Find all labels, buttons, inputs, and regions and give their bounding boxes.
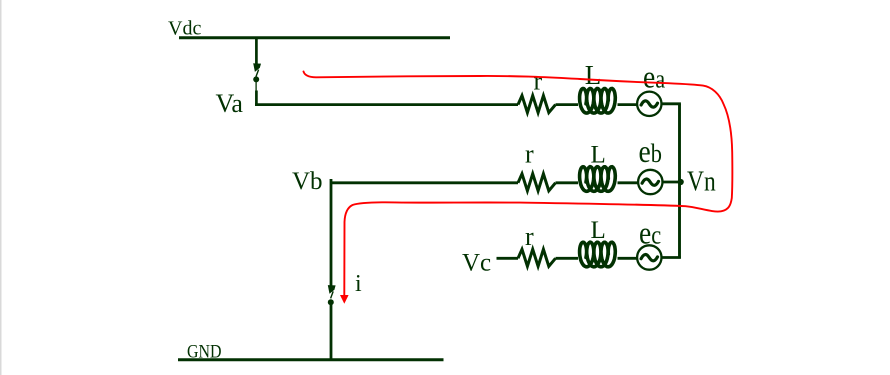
svg-text:L: L — [591, 141, 606, 168]
svg-text:Vc: Vc — [462, 250, 491, 277]
svg-text:ea: ea — [643, 59, 665, 94]
switch S1 arrowhead — [253, 63, 261, 72]
wire resistor-to-inductor (phase B) — [556, 181, 579, 184]
AC source ea (phase A) — [637, 92, 661, 116]
switch S2 contact dot — [328, 299, 334, 305]
resistor r (phase B) — [518, 174, 556, 191]
arrowhead of current i — [340, 295, 349, 304]
svg-text:L: L — [585, 60, 602, 90]
wire source ec to right bus — [662, 256, 681, 259]
wire right bus (ea-eb-ec common) — [678, 104, 681, 258]
wire inductor-to-source (phase C) — [618, 257, 638, 260]
inductor L (phase A) — [580, 89, 616, 114]
svg-text:Vn: Vn — [687, 166, 716, 197]
wire source ea to right bus — [662, 102, 681, 105]
svg-text:r: r — [534, 67, 543, 96]
wire Vdc bus to switch S1 — [255, 38, 258, 64]
wire resistor-to-inductor (phase C) — [556, 257, 579, 260]
wire source eb to node Vn — [663, 181, 681, 184]
bus wire GND — [178, 358, 444, 361]
junction dot node Vn — [678, 179, 684, 185]
wire resistor-to-inductor (phase A) — [556, 103, 579, 106]
switch S1 lower stub — [255, 82, 257, 91]
wire node Vc to resistor (phase C) — [497, 257, 519, 260]
svg-text:Vb: Vb — [292, 168, 323, 195]
svg-text:Va: Va — [216, 89, 244, 118]
inductor L (phase B) — [580, 167, 616, 192]
AC source ec (phase C) — [637, 245, 661, 269]
svg-text:L: L — [591, 217, 606, 244]
bus wire Vdc — [179, 36, 450, 39]
svg-text:Vdc: Vdc — [168, 17, 201, 39]
current path i (red freehand loop) — [304, 72, 733, 296]
resistor r (phase A) — [518, 96, 556, 113]
wire node Vb down to switch S2 — [330, 179, 333, 286]
AC source eb (phase B) — [638, 170, 662, 194]
inductor L (phase C) — [580, 242, 616, 267]
wire switch S2 to GND bus — [330, 305, 333, 362]
svg-text:r: r — [525, 139, 534, 168]
svg-text:i: i — [355, 271, 362, 297]
wire inductor-to-source (phase B) — [618, 181, 639, 184]
switch S1 contact dot — [253, 76, 259, 82]
switch S1 blade — [256, 70, 259, 77]
wire node Vb to resistor (phase B) — [330, 181, 518, 184]
wire switch S1 to node Va — [255, 91, 258, 107]
wire node Va to resistor (phase A) — [255, 103, 518, 106]
resistor r (phase C) — [518, 249, 556, 266]
switch S2 arrowhead — [328, 285, 336, 294]
svg-text:eb: eb — [639, 134, 662, 169]
switch S2 blade — [331, 291, 334, 298]
wire inductor-to-source (phase A) — [618, 103, 638, 106]
